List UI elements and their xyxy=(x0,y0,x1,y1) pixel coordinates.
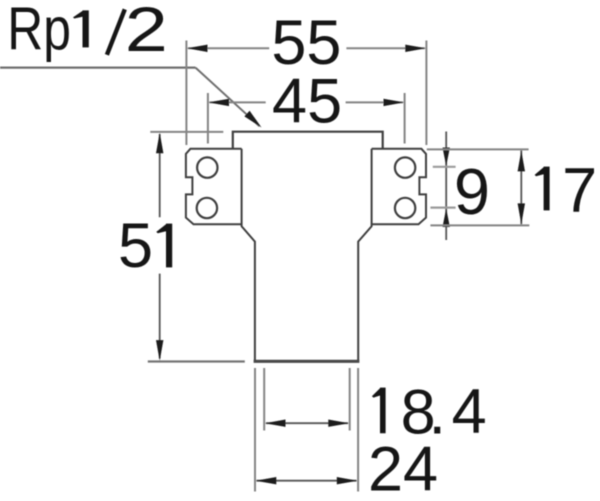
arrow 24 left xyxy=(256,477,277,484)
svg-text:7: 7 xyxy=(562,156,597,226)
svg-text:24: 24 xyxy=(368,435,438,501)
hole right ear upper xyxy=(395,157,415,177)
hole right ear lower xyxy=(395,198,415,218)
arrow 45 left xyxy=(208,99,229,106)
extension line 24 right xyxy=(357,368,359,492)
extension line 17 bottom xyxy=(430,224,529,226)
arrow 17 top xyxy=(518,151,525,172)
dimension line 18.4 xyxy=(266,422,348,424)
part left ear xyxy=(186,149,242,224)
dimension line 17 xyxy=(520,151,522,225)
leader line Rp1/2 diagonal xyxy=(196,68,260,127)
extension line 45 right xyxy=(404,93,406,144)
arrow 9 top xyxy=(443,148,450,166)
arrow 18.4 right xyxy=(328,420,349,427)
part top flange xyxy=(233,132,383,149)
tick 9 bottom (hole centreline) xyxy=(430,207,455,209)
part body left side and stem left xyxy=(242,149,255,360)
svg-text:5: 5 xyxy=(118,211,153,281)
svg-text:45: 45 xyxy=(272,67,342,137)
dimension line 24 xyxy=(257,480,357,482)
label digit 1 of 18.4 xyxy=(372,388,386,434)
svg-text:4: 4 xyxy=(452,377,487,447)
label digit 1 of 51 xyxy=(156,224,172,268)
label digit 1 of 17 xyxy=(535,167,550,211)
arrow 51 top xyxy=(156,133,163,154)
arrow 45 right xyxy=(384,99,405,106)
arrow 55 right xyxy=(405,45,426,52)
extension line 18.4 left xyxy=(263,368,265,431)
part stem bottom edge xyxy=(254,360,360,363)
leader arrowhead xyxy=(244,111,261,128)
arrow 55 left xyxy=(187,45,208,52)
leader line Rp1/2 horizontal xyxy=(0,66,196,68)
arrow 51 bottom xyxy=(156,340,163,361)
extension line 24 left xyxy=(254,368,256,492)
dimension line 9 vertical xyxy=(445,132,447,241)
tick 9 top (hole centreline) xyxy=(433,166,456,168)
dimension line 45 xyxy=(210,101,404,103)
svg-text:2: 2 xyxy=(125,0,168,65)
extension line 51 top xyxy=(150,131,223,133)
part right ear xyxy=(372,149,426,224)
dimension line 51 xyxy=(159,134,161,359)
extension line 17 top xyxy=(427,148,529,150)
extension line 45 left xyxy=(207,93,209,144)
extension line 18.4 right xyxy=(349,368,351,431)
arrow 9 bottom xyxy=(443,209,450,227)
arrow 18.4 left xyxy=(265,420,286,427)
dimension line 55 xyxy=(188,47,425,49)
arrow 17 bottom xyxy=(518,203,525,224)
svg-text:9: 9 xyxy=(454,155,490,228)
extension line 55 left xyxy=(185,41,187,146)
extension line 51 bottom xyxy=(148,360,245,362)
label fraction slash of Rp1/2 xyxy=(107,9,125,55)
part body right side and stem right xyxy=(358,149,371,360)
hole left ear upper xyxy=(197,157,217,177)
label digit 1 of Rp1/2 xyxy=(73,10,89,47)
hole left ear lower xyxy=(197,198,217,218)
arrow 24 right xyxy=(337,477,358,484)
svg-text:Rp: Rp xyxy=(7,0,71,63)
extension line 55 right xyxy=(425,41,427,146)
